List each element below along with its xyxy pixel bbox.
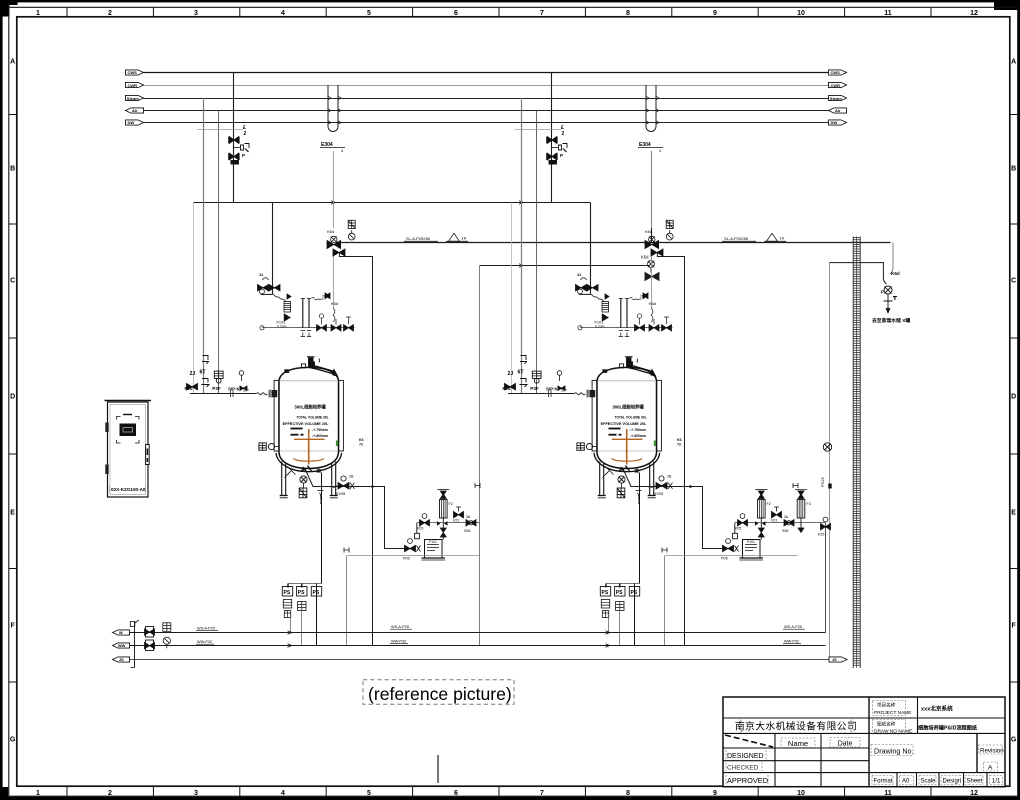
V2 steam drop dark overlay bbox=[651, 151, 653, 243]
svg-text:E: E bbox=[1011, 510, 1016, 517]
left flag pipe 4 Air bbox=[126, 108, 144, 113]
air branch drop x=272.5 bbox=[272, 203, 274, 295]
top nozzles bbox=[285, 357, 338, 376]
vessel shell bbox=[276, 367, 342, 471]
steam step drop unit 1 bbox=[339, 253, 372, 646]
flow arrows on headers bbox=[288, 631, 610, 648]
level probe (green) bbox=[336, 441, 338, 447]
svg-text:1K: 1K bbox=[462, 236, 467, 241]
svg-text:12: 12 bbox=[970, 10, 978, 17]
return line valve cluster bbox=[818, 517, 831, 536]
vessel side port marks bbox=[259, 443, 279, 450]
cabinet label frame bbox=[110, 486, 146, 493]
svg-text:1/1: 1/1 bbox=[992, 779, 1001, 785]
pipe line 2 bbox=[144, 85, 829, 87]
svg-text:CWS: CWS bbox=[128, 70, 138, 75]
top zone numbers bbox=[36, 10, 978, 17]
drain drop x=346.5 bbox=[346, 556, 348, 646]
title block grid lines bbox=[723, 697, 1005, 787]
sample valve cluster mid bbox=[322, 293, 338, 322]
instrument column P3F bbox=[212, 371, 223, 391]
valve cluster at V2 steam inlet bbox=[645, 261, 659, 281]
inlet air filter chain bbox=[277, 294, 292, 329]
svg-text:6: 6 bbox=[454, 790, 458, 797]
svg-text:PROJECT NAME: PROJECT NAME bbox=[874, 710, 912, 716]
svg-text:9: 9 bbox=[713, 790, 717, 797]
svg-text:WS-A-P25: WS-A-P25 bbox=[391, 625, 409, 629]
drop line tag bbox=[359, 438, 364, 447]
svg-text:A: A bbox=[988, 765, 993, 772]
svg-text:Format: Format bbox=[874, 779, 893, 785]
left zone letters bbox=[10, 59, 16, 744]
svg-text:PS: PS bbox=[298, 590, 305, 596]
svg-text:3: 3 bbox=[194, 10, 198, 17]
right zone dividers bbox=[1010, 115, 1018, 683]
air drop line x=233.9 bbox=[233, 73, 235, 203]
scan edge left strip bbox=[0, 0, 3, 800]
svg-text:-+-600mm: -+-600mm bbox=[312, 434, 328, 438]
svg-text:8: 8 bbox=[626, 10, 630, 17]
hinge top bbox=[105, 423, 108, 433]
flag texts bbox=[118, 631, 837, 662]
svg-text:xxx北京系统: xxx北京系统 bbox=[921, 705, 953, 713]
scan edge bottom-left black corner bbox=[0, 787, 8, 800]
condensate collect line y=555.5 bbox=[347, 555, 480, 557]
left flag pipe 1 CWS bbox=[126, 70, 144, 75]
svg-text:4: 4 bbox=[281, 10, 285, 17]
cabinet top plate bbox=[105, 400, 152, 402]
svg-text:DESIGNED: DESIGNED bbox=[727, 753, 764, 760]
svg-text:K25: K25 bbox=[818, 533, 824, 537]
svg-text:去至蒸馏水储 X罐: 去至蒸馏水储 X罐 bbox=[872, 317, 910, 324]
instrument column 6T bbox=[200, 356, 210, 388]
svg-text:2B: 2B bbox=[349, 475, 354, 479]
PS switch 3 bbox=[311, 587, 321, 597]
svg-text:5: 5 bbox=[367, 10, 371, 17]
valve on header 2 bbox=[145, 640, 155, 651]
right flag pipe 2 CWR bbox=[829, 82, 847, 87]
project name label bbox=[873, 701, 912, 717]
svg-text:南京大水机械设备有限公司: 南京大水机械设备有限公司 bbox=[735, 720, 857, 733]
sparge inlet valves bbox=[317, 314, 354, 331]
steam drop x=333.8 bbox=[333, 151, 335, 228]
pressure gauge below grid box bbox=[348, 230, 355, 240]
svg-text:11: 11 bbox=[884, 10, 892, 17]
gauge on header 2 bbox=[163, 637, 170, 648]
svg-text:DW: DW bbox=[831, 120, 838, 125]
svg-text:Air: Air bbox=[132, 108, 138, 113]
PS drop to header 1 bbox=[290, 618, 292, 633]
svg-text:E: E bbox=[10, 510, 15, 517]
svg-text:2: 2 bbox=[244, 131, 247, 137]
svg-text:12: 12 bbox=[970, 790, 978, 797]
svg-text:4: 4 bbox=[341, 148, 344, 153]
sight glass on return line bbox=[823, 443, 831, 451]
feed line to vessel bbox=[190, 389, 277, 398]
U-loop crossing arrows bbox=[328, 96, 341, 124]
SIP inlet cluster bbox=[228, 371, 247, 392]
right flag pipe 1 CWS bbox=[829, 70, 847, 75]
grid box on header 1 bbox=[163, 623, 171, 632]
steam line tag bbox=[404, 233, 468, 241]
pressure reducing station bbox=[327, 229, 345, 256]
svg-text:SIP: SIP bbox=[243, 389, 249, 393]
svg-text:(reference picture): (reference picture) bbox=[368, 684, 512, 704]
H mark bbox=[475, 483, 480, 488]
company dashed frame bbox=[741, 720, 851, 733]
svg-text:P: P bbox=[881, 290, 884, 295]
svg-text:EFFECTIVE VOLUME 20L: EFFECTIVE VOLUME 20L bbox=[283, 422, 329, 426]
svg-text:DW: DW bbox=[128, 120, 135, 125]
svg-text:3A: 3A bbox=[466, 515, 471, 519]
svg-text:72: 72 bbox=[359, 443, 363, 447]
bottom zone numbers bbox=[36, 790, 978, 797]
svg-text:K6d: K6d bbox=[891, 271, 900, 276]
top zone dividers bbox=[67, 7, 931, 16]
drain header from bottom valve bbox=[306, 471, 405, 549]
steam sub header y=265.5 bbox=[480, 265, 650, 267]
left flag pipe 2 CWR bbox=[126, 82, 144, 87]
sparge line y=327.8 bbox=[260, 326, 355, 330]
flag texts bbox=[127, 70, 842, 125]
svg-text:7: 7 bbox=[540, 10, 544, 17]
svg-text:WW-P32: WW-P32 bbox=[391, 640, 406, 644]
svg-text:8: 8 bbox=[626, 790, 630, 797]
side valve on filter line bbox=[453, 507, 464, 523]
svg-text:C: C bbox=[10, 278, 15, 285]
right flag pipe 5 DW bbox=[829, 120, 847, 125]
svg-text:1: 1 bbox=[36, 790, 40, 797]
vessel dimension dashes bbox=[291, 428, 304, 436]
svg-text:WS-A-P25: WS-A-P25 bbox=[784, 625, 802, 629]
condensate feeder elbow bbox=[830, 263, 887, 284]
drain hose wavy bbox=[331, 486, 340, 488]
vessel legs bbox=[280, 462, 338, 498]
svg-text:V21: V21 bbox=[453, 519, 459, 523]
svg-text:F: F bbox=[10, 623, 15, 630]
control cabinet body bbox=[108, 402, 149, 497]
left zone dividers bbox=[9, 115, 17, 683]
filter base flank valves bbox=[437, 521, 448, 525]
agitator (orange) bbox=[294, 429, 325, 465]
return line block mark bbox=[828, 484, 831, 489]
svg-text:P101: P101 bbox=[429, 540, 437, 544]
line tag C1 bbox=[783, 625, 805, 644]
svg-text:Steam: Steam bbox=[830, 96, 842, 101]
svg-text:7: 7 bbox=[540, 790, 544, 797]
condensate line y=522.8 bbox=[417, 522, 480, 524]
svg-text:2: 2 bbox=[108, 790, 112, 797]
battery-limit comb line bbox=[853, 237, 860, 669]
svg-text:K05: K05 bbox=[417, 527, 423, 531]
svg-text:CWR: CWR bbox=[128, 83, 138, 88]
inlet air valve cluster above vessel bbox=[258, 272, 287, 302]
svg-text:SL-A-P25256: SL-A-P25256 bbox=[406, 236, 431, 241]
svg-text:DRAW NO NAME: DRAW NO NAME bbox=[874, 729, 912, 735]
screen frame marks bbox=[117, 415, 140, 444]
svg-text:项目名称: 项目名称 bbox=[877, 702, 896, 709]
drain header 3 bbox=[130, 659, 830, 661]
svg-text:WW: WW bbox=[118, 644, 126, 648]
svg-text:02X-KZG100-A0: 02X-KZG100-A0 bbox=[111, 487, 146, 492]
flow arrow on sub header bbox=[519, 264, 523, 268]
svg-text:C: C bbox=[1011, 278, 1016, 285]
svg-text:Design: Design bbox=[943, 779, 962, 785]
svg-text:JS: JS bbox=[832, 658, 837, 662]
comb rungs bbox=[853, 238, 860, 666]
reference picture caption box bbox=[363, 680, 514, 705]
svg-text:A0: A0 bbox=[902, 779, 910, 785]
title block outer box bbox=[723, 697, 1005, 787]
svg-text:XV05: XV05 bbox=[336, 492, 345, 496]
svg-text:PS: PS bbox=[313, 590, 320, 596]
svg-text:WW-P32: WW-P32 bbox=[197, 640, 212, 644]
drawing name label bbox=[873, 720, 913, 735]
condensate drain stub bbox=[415, 523, 420, 539]
left flag pipe 5 DW bbox=[126, 120, 144, 125]
svg-text:300L细胞培养罐: 300L细胞培养罐 bbox=[294, 404, 326, 411]
svg-text:P05: P05 bbox=[403, 557, 410, 561]
svg-text:Sheet: Sheet bbox=[967, 779, 983, 785]
flow arrow on header right bbox=[519, 201, 523, 205]
svg-text:F3: F3 bbox=[807, 502, 811, 506]
PS drop to header 2 bbox=[301, 611, 303, 646]
diagonal cell divider bbox=[725, 735, 773, 747]
steam main y=242.5 bbox=[336, 242, 891, 244]
cabinet screen bbox=[120, 424, 137, 437]
svg-text:D: D bbox=[1011, 394, 1016, 401]
svg-text:2J: 2J bbox=[190, 371, 196, 377]
svg-text:W: W bbox=[119, 631, 123, 635]
scan edge top strip bbox=[0, 0, 1020, 2]
safety valve grid box bbox=[348, 220, 355, 228]
svg-text:APPROVED: APPROVED bbox=[727, 776, 768, 785]
svg-text:-+-750mm: -+-750mm bbox=[312, 428, 328, 432]
svg-text:B: B bbox=[10, 166, 15, 173]
pipe line 4 bbox=[144, 110, 829, 112]
pipe line 3 bbox=[144, 98, 829, 100]
header drop line x=193.5 bbox=[193, 203, 195, 394]
svg-text:F2: F2 bbox=[449, 502, 453, 506]
drain junction dot bbox=[371, 485, 374, 488]
svg-text:6T: 6T bbox=[200, 370, 207, 376]
right flag pipe 4 Air bbox=[829, 108, 847, 113]
steam drop lower segment bbox=[333, 256, 335, 308]
svg-text:11: 11 bbox=[259, 272, 264, 277]
condensate return line x=829.5 bbox=[829, 262, 831, 658]
scan edge top-left black corner bbox=[0, 0, 18, 5]
svg-text:G: G bbox=[1011, 737, 1017, 744]
screen text bbox=[123, 428, 133, 433]
drain valve cluster bbox=[336, 475, 355, 497]
left flag header 2 bbox=[113, 643, 130, 648]
vent filter column bbox=[437, 490, 452, 540]
svg-text:9: 9 bbox=[713, 10, 717, 17]
jacket side channel left bbox=[274, 380, 279, 451]
vessel data text bbox=[283, 404, 329, 439]
steam step drop unit 2 bbox=[657, 253, 684, 646]
right flag header 3 bbox=[829, 657, 847, 662]
svg-text:TOTAL VOLUME 30L: TOTAL VOLUME 30L bbox=[296, 415, 328, 419]
drain header 1 bbox=[130, 632, 826, 634]
svg-text:G: G bbox=[10, 737, 16, 744]
pipe line 5 bbox=[144, 122, 829, 124]
right zone letters bbox=[1011, 59, 1017, 744]
svg-text:细胞培养罐P&ID流程图纸: 细胞培养罐P&ID流程图纸 bbox=[918, 724, 978, 732]
svg-text:CWS: CWS bbox=[831, 70, 841, 75]
PS manifold bbox=[288, 473, 322, 646]
svg-text:4: 4 bbox=[281, 790, 285, 797]
svg-text:Name: Name bbox=[788, 739, 808, 748]
condensate valve bbox=[417, 514, 430, 531]
vertical sample line x=134.7 bbox=[130, 620, 139, 668]
condensate ext line bbox=[796, 522, 826, 524]
left flag header 3 bbox=[113, 657, 130, 662]
svg-text:图纸名称: 图纸名称 bbox=[877, 721, 896, 728]
svg-text:Date: Date bbox=[838, 741, 853, 748]
svg-text:WS-A-P25: WS-A-P25 bbox=[197, 627, 215, 631]
pump suction valves bbox=[403, 539, 421, 561]
text cursor mark bbox=[437, 755, 439, 783]
valve on header 1 bbox=[145, 627, 155, 638]
line tag B1 bbox=[390, 625, 412, 644]
svg-text:Scale: Scale bbox=[921, 779, 937, 785]
pipe line 1 (top utility header) bbox=[144, 72, 829, 74]
svg-text:Air: Air bbox=[835, 108, 841, 113]
bottom zone dividers bbox=[67, 786, 931, 796]
end-of-line valve station bbox=[881, 271, 900, 313]
svg-text:D: D bbox=[10, 394, 15, 401]
svg-text:CHECKED: CHECKED bbox=[727, 765, 759, 772]
svg-text:Steam: Steam bbox=[127, 96, 139, 101]
clean air header y=202 bbox=[194, 202, 591, 204]
svg-text:A: A bbox=[10, 59, 15, 66]
second vent filter column bbox=[795, 490, 811, 533]
svg-text:B: B bbox=[1011, 166, 1016, 173]
svg-text:Revision: Revision bbox=[980, 748, 1004, 755]
left flag header 1 bbox=[113, 630, 130, 635]
cabinet inner door line bbox=[110, 405, 146, 495]
vessel weld seams bbox=[280, 381, 339, 451]
steam U-loop seal bbox=[328, 85, 338, 132]
svg-text:K6: K6 bbox=[359, 438, 364, 442]
signal line near TCV bbox=[197, 129, 243, 131]
svg-text:A: A bbox=[1011, 59, 1016, 66]
svg-text:1: 1 bbox=[36, 10, 40, 17]
condensate collect drop x=825 bbox=[825, 523, 827, 633]
svg-text:PG25: PG25 bbox=[821, 477, 825, 487]
svg-text:3: 3 bbox=[194, 790, 198, 797]
bottom row dashed frames bbox=[872, 776, 1003, 785]
vertical steam drop x=478.5 bbox=[479, 266, 481, 646]
svg-text:F: F bbox=[1011, 623, 1016, 630]
hinge bottom bbox=[105, 465, 108, 475]
svg-text:P: P bbox=[242, 153, 245, 158]
utility drop line x=218.8 bbox=[218, 111, 220, 394]
dip tubes bbox=[301, 298, 324, 337]
pump P101 bbox=[422, 540, 446, 561]
svg-text:10: 10 bbox=[797, 790, 805, 797]
handle bbox=[146, 445, 150, 465]
right flag pipe 3 Steam bbox=[829, 95, 847, 100]
svg-text:S06: S06 bbox=[464, 529, 470, 533]
left instrument column 2J bbox=[185, 371, 198, 391]
svg-text:5: 5 bbox=[367, 790, 371, 797]
svg-text:10: 10 bbox=[797, 10, 805, 17]
steam trap cluster bbox=[464, 515, 476, 533]
svg-text:K6d: K6d bbox=[327, 229, 334, 234]
svg-text:P2d: P2d bbox=[185, 386, 193, 391]
scan edge bottom strip bbox=[8, 797, 1020, 800]
svg-text:SIP⋅K: SIP⋅K bbox=[228, 387, 240, 392]
svg-text:2: 2 bbox=[108, 10, 112, 17]
left flag pipe 3 Steam bbox=[126, 95, 144, 100]
svg-text:CWR: CWR bbox=[831, 83, 841, 88]
scan edge right strip bbox=[1018, 0, 1020, 800]
svg-text:PS: PS bbox=[284, 590, 291, 596]
PS switch 1 bbox=[282, 587, 292, 618]
bottom outlet valve train bbox=[285, 466, 324, 504]
svg-text:K6d: K6d bbox=[331, 301, 338, 306]
svg-text:6: 6 bbox=[454, 10, 458, 17]
steam main end drop bbox=[890, 243, 893, 275]
scan edge top-right black corner bbox=[994, 0, 1020, 10]
jacket side channel right bbox=[339, 380, 344, 451]
flow arrow on header bbox=[331, 201, 335, 205]
U-loop tag bbox=[320, 142, 345, 153]
drain header 2 bbox=[130, 645, 826, 647]
line tag A1 bbox=[196, 627, 218, 645]
H mark on drain drop bbox=[344, 548, 349, 553]
E2 tag bbox=[243, 125, 247, 137]
bottom row labels bbox=[874, 779, 1002, 785]
PS switch 2 bbox=[297, 587, 307, 611]
svg-text:Drawing No.: Drawing No. bbox=[874, 747, 914, 756]
air control valve cluster TCV bbox=[229, 137, 249, 165]
svg-text:JS: JS bbox=[119, 658, 124, 662]
svg-text:11: 11 bbox=[884, 790, 892, 797]
utility drop line x=203.7 bbox=[203, 98, 205, 393]
svg-text:P3F: P3F bbox=[212, 386, 221, 391]
svg-text:K6d: K6d bbox=[641, 255, 649, 260]
svg-text:WW-P32: WW-P32 bbox=[784, 640, 799, 644]
